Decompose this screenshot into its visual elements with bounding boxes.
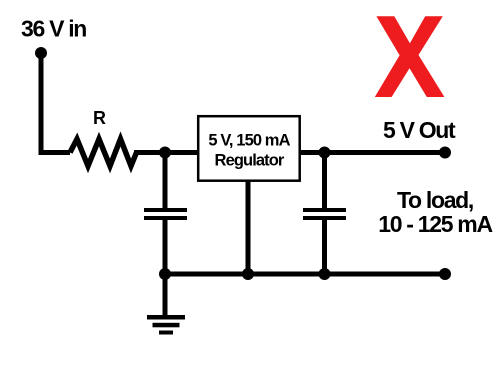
wire: regulator output to 5V out terminal — [300, 150, 445, 155]
wire: bottom ground rail — [165, 272, 445, 277]
node: rail junction at C1 — [159, 268, 171, 280]
wire: regulator ground pin — [246, 181, 251, 274]
wire: C1 to ground rail — [163, 220, 168, 274]
wire: output junction down to C2 — [322, 153, 327, 210]
node: rail junction at C2 — [319, 268, 331, 280]
wire: input junction down to C1 — [163, 153, 168, 210]
svg-text:5 V, 150 mA: 5 V, 150 mA — [208, 131, 290, 149]
terminal: load return — [439, 268, 451, 280]
svg-text:36 V in: 36 V in — [21, 15, 86, 41]
node: input junction — [159, 147, 171, 159]
node: output junction — [319, 147, 331, 159]
capacitor C1 (input) — [144, 208, 187, 220]
red X mark — [375, 16, 445, 97]
terminal: 5 V out — [439, 147, 451, 159]
svg-text:Regulator: Regulator — [215, 151, 285, 169]
wire: input from terminal down and right to resistor — [41, 53, 70, 153]
capacitor C2 (output) — [303, 208, 346, 220]
resistor R — [70, 139, 137, 166]
regulator U1 — [198, 116, 300, 181]
ground — [147, 274, 185, 335]
svg-text:10 - 125 mA: 10 - 125 mA — [378, 211, 492, 237]
svg-text:5 V Out: 5 V Out — [383, 117, 456, 143]
label "To load, 10 - 125 mA" — [378, 187, 492, 237]
wire: resistor to regulator input — [134, 150, 197, 155]
svg-text:To load,: To load, — [397, 187, 473, 213]
wire: C2 to ground rail — [322, 220, 327, 274]
terminal: 36 V in — [35, 47, 47, 59]
svg-text:R: R — [93, 108, 106, 128]
node: rail junction at regulator pin — [242, 268, 254, 280]
